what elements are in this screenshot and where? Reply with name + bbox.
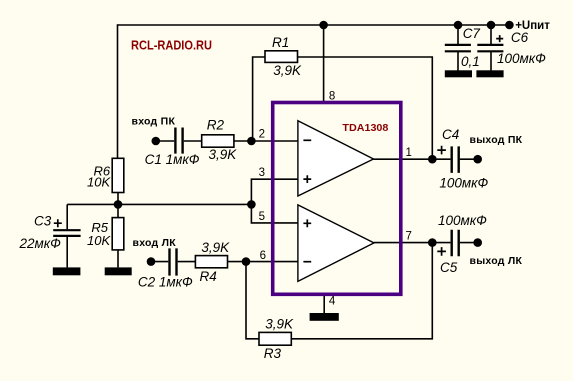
node bias divider junction xyxy=(114,200,123,209)
wire C7 leads xyxy=(457,25,459,71)
wire bias to C3 xyxy=(66,204,68,229)
wire R5 leads xyxy=(117,204,119,267)
svg-text:вход ЛК: вход ЛК xyxy=(133,237,177,249)
capacitor C7 plates xyxy=(445,45,471,51)
wire left rail down to R6 xyxy=(117,24,119,158)
svg-text:3: 3 xyxy=(259,167,265,179)
svg-text:C5: C5 xyxy=(440,260,458,275)
svg-text:C3: C3 xyxy=(34,214,52,229)
svg-text:10K: 10K xyxy=(87,233,111,248)
capacitor C3 plates xyxy=(53,230,80,236)
label C6 plus xyxy=(496,35,503,42)
svg-text:TDA1308: TDA1308 xyxy=(342,122,388,134)
svg-text:выход ЛК: выход ЛК xyxy=(470,255,523,267)
wire R1 right to feedback rail xyxy=(298,57,433,159)
capacitor C5 plates xyxy=(452,230,459,256)
svg-text:R2: R2 xyxy=(207,118,225,133)
wire top supply rail xyxy=(118,24,510,26)
capacitor C2 plates xyxy=(170,248,177,275)
capacitor C1 plates xyxy=(175,128,182,154)
wire C1 to R2 xyxy=(184,140,201,142)
ground below C6 xyxy=(476,70,503,77)
svg-text:100мкФ: 100мкФ xyxy=(497,51,546,66)
wire R6 bottom lead xyxy=(117,193,119,205)
svg-text:22мкФ: 22мкФ xyxy=(19,236,62,251)
svg-text:1: 1 xyxy=(406,147,412,159)
svg-text:3,9K: 3,9K xyxy=(265,316,294,331)
svg-text:C7: C7 xyxy=(463,26,481,41)
svg-text:0,1: 0,1 xyxy=(461,54,480,69)
svg-text:4: 4 xyxy=(329,295,336,307)
node pin 7 junction xyxy=(428,238,437,247)
node +Upit terminal xyxy=(505,21,514,30)
svg-text:5: 5 xyxy=(259,211,265,223)
op-amp B (pins 5,6,7) xyxy=(298,205,374,282)
svg-text:C6: C6 xyxy=(511,30,529,45)
wire pin 1 output to C4 xyxy=(374,158,478,160)
label C4 plus xyxy=(437,146,446,155)
wire pin 3 xyxy=(251,179,298,223)
op-amp A minus sign xyxy=(303,139,311,141)
svg-text:C1 1мкФ: C1 1мкФ xyxy=(145,152,200,167)
wire R2 to pin 2 xyxy=(234,140,298,142)
svg-text:10K: 10K xyxy=(87,175,111,190)
op-amp B plus sign xyxy=(303,219,311,227)
ground below C3 xyxy=(53,267,81,275)
svg-text:+Uпит: +Uпит xyxy=(515,20,550,32)
resistor R5 xyxy=(112,218,124,250)
svg-text:R4: R4 xyxy=(200,269,217,284)
wire R4 to pin 6 xyxy=(228,261,298,263)
svg-text:R1: R1 xyxy=(272,35,289,50)
svg-text:7: 7 xyxy=(406,231,412,243)
wire bias node to pins 3-5 xyxy=(67,203,251,205)
node pin 6 junction xyxy=(242,257,251,266)
svg-text:6: 6 xyxy=(260,250,266,262)
svg-text:RCL-RADIO.RU: RCL-RADIO.RU xyxy=(131,37,212,52)
wire input LK to C2 xyxy=(151,261,168,263)
node output PK terminal xyxy=(473,155,482,164)
resistor R1 xyxy=(265,51,298,63)
wire R1 left leg to pin 2 node xyxy=(253,57,265,141)
svg-text:R3: R3 xyxy=(264,346,282,361)
IC body TDA1308 xyxy=(273,103,401,295)
svg-text:3,9K: 3,9K xyxy=(201,240,230,255)
op-amp A (pins 2,3,1) xyxy=(298,121,374,196)
wire pin 4 to ground xyxy=(323,294,325,313)
node pins 3-5 junction xyxy=(247,200,256,209)
wire R3 left to pin 6 node xyxy=(246,262,259,339)
op-amp A plus sign xyxy=(303,175,311,183)
capacitor C4 plates xyxy=(452,146,459,173)
svg-text:100мкФ: 100мкФ xyxy=(439,176,488,191)
label C3 plus xyxy=(54,219,62,227)
wire C2 to R4 xyxy=(178,261,196,263)
resistor R6 xyxy=(112,158,124,192)
node C7 junction xyxy=(454,21,463,30)
svg-text:выход ПК: выход ПК xyxy=(470,134,523,146)
svg-text:8: 8 xyxy=(329,91,335,103)
wire C6 leads xyxy=(490,25,492,71)
svg-text:2: 2 xyxy=(259,129,265,141)
resistor R4 xyxy=(195,256,227,268)
ground below C7 xyxy=(445,70,472,77)
resistor R2 xyxy=(202,135,234,147)
node C6 junction xyxy=(487,21,496,30)
node input PK terminal xyxy=(152,137,161,146)
label C5 plus xyxy=(437,247,446,256)
svg-text:3,9K: 3,9K xyxy=(273,63,302,78)
node output LK terminal xyxy=(473,238,482,247)
node pin 2 junction xyxy=(247,137,256,146)
node input LK terminal xyxy=(147,257,156,266)
wire pin 8 to supply rail xyxy=(323,25,325,103)
svg-text:C4: C4 xyxy=(442,127,459,142)
node pin 1 junction xyxy=(428,155,437,164)
wire pin 7 output to C5 xyxy=(374,242,478,244)
svg-text:вход ПК: вход ПК xyxy=(132,115,176,127)
ground pin 4 xyxy=(310,313,339,321)
resistor R3 xyxy=(259,332,291,345)
svg-text:100мкФ: 100мкФ xyxy=(438,213,487,228)
wire C3 to ground xyxy=(66,237,68,268)
svg-text:3,9K: 3,9K xyxy=(209,147,238,162)
node supply/pin8 junction xyxy=(319,21,328,30)
ground below R5 xyxy=(105,267,132,275)
wire input PK to C1 xyxy=(156,140,174,142)
op-amp B minus sign xyxy=(303,261,311,263)
wire feedback rail pin7 to R3 xyxy=(291,243,432,339)
capacitor C6 plates xyxy=(477,45,503,51)
svg-text:C2 1мкФ: C2 1мкФ xyxy=(138,275,193,290)
